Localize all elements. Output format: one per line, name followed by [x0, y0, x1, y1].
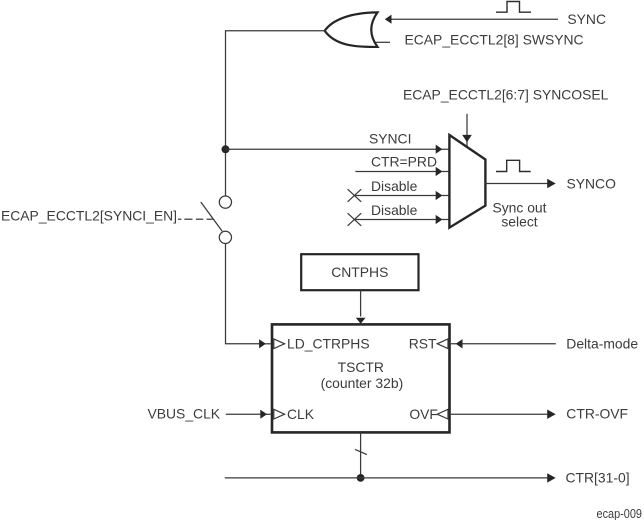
- wire rail from switch down to LD_CTRPHS: [226, 244, 266, 344]
- pin chevron RST: [437, 339, 448, 349]
- svg-text:ECAP_ECCTL2[8] SWSYNC: ECAP_ECCTL2[8] SWSYNC: [405, 31, 584, 47]
- svg-text:Disable: Disable: [371, 202, 418, 218]
- svg-text:ECAP_ECCTL2[SYNCI_EN]: ECAP_ECCTL2[SYNCI_EN]: [1, 208, 177, 224]
- junction dot on CTR bus: [357, 474, 365, 482]
- OR gate (sync combine, mirrored: inputs right, output left): [325, 12, 378, 47]
- svg-text:LD_CTRPHS: LD_CTRPHS: [287, 336, 370, 352]
- pin chevron CLK: [274, 409, 285, 419]
- wire VBUS_CLK to TSCTR: [226, 413, 271, 415]
- X mark on Disable input 1: [348, 189, 362, 202]
- wire Disable input 1 to mux: [354, 195, 448, 197]
- node junction dot on rail: [222, 145, 230, 153]
- arrowhead Disable 1 into mux: [436, 191, 443, 200]
- svg-text:RST: RST: [409, 335, 437, 351]
- X mark on Disable input 2: [348, 213, 362, 226]
- switch lower contact circle: [219, 231, 231, 243]
- wire TSCTR bottom to CTR bus: [360, 432, 362, 478]
- arrowhead Delta-mode into RST: [456, 339, 463, 348]
- mux Sync-out-select (trapezoid): [449, 135, 485, 228]
- svg-text:select: select: [501, 214, 537, 230]
- svg-text:SYNC: SYNC: [567, 11, 606, 27]
- svg-text:SYNCI: SYNCI: [369, 131, 411, 147]
- wire SWSYNC input stub: [375, 41, 391, 43]
- wire stub arrow to block edge: [265, 343, 271, 345]
- wire OVF to CTR-OVF: [451, 413, 548, 415]
- block CNTPHS: [301, 254, 418, 290]
- svg-text:CTR=PRD: CTR=PRD: [371, 153, 437, 169]
- svg-text:Delta-mode: Delta-mode: [566, 335, 638, 351]
- pulse symbol above SYNCO wire: [496, 160, 531, 171]
- pin chevron LD_CTRPHS: [274, 339, 285, 349]
- svg-text:CNTPHS: CNTPHS: [331, 264, 388, 280]
- svg-text:Disable: Disable: [371, 178, 418, 194]
- pin chevron OVF: [437, 409, 448, 419]
- switch arm: [201, 202, 222, 231]
- arrowhead SYNCI into mux: [436, 145, 443, 154]
- arrowhead VBUS_CLK into CLK: [260, 410, 267, 419]
- svg-text:CTR[31-0]: CTR[31-0]: [566, 470, 630, 486]
- svg-text:ecap-009: ecap-009: [597, 506, 643, 520]
- svg-text:SYNCO: SYNCO: [567, 176, 617, 192]
- block TSCTR (counter 32b): [272, 324, 450, 432]
- arrowhead CTR-OVF: [547, 410, 556, 419]
- svg-text:TSCTR: TSCTR: [338, 359, 384, 375]
- svg-text:OVF: OVF: [409, 406, 438, 422]
- wire SYNCI from node to mux: [226, 148, 449, 150]
- arrowhead Disable 2 into mux: [436, 215, 443, 224]
- arrowhead SYNC into OR gate: [385, 15, 392, 24]
- wire SYNCOSEL select into mux top: [466, 114, 468, 147]
- wire CTR[31-0] bus: [225, 477, 548, 479]
- svg-text:ECAP_ECCTL2[6:7] SYNCOSEL: ECAP_ECCTL2[6:7] SYNCOSEL: [403, 87, 609, 103]
- wire SYNC input: [391, 18, 558, 20]
- wire Delta-mode to RST: [451, 343, 556, 345]
- arrowhead CTR[31-0]: [547, 473, 556, 482]
- wire CNTPHS down to TSCTR: [360, 290, 362, 316]
- arrowhead into LD_CTRPHS: [259, 339, 266, 348]
- bus-width slash on CTR wire: [355, 449, 367, 454]
- wire OR gate output to left rail: [226, 31, 325, 196]
- dashed control line to switch: [178, 218, 181, 220]
- svg-text:CTR-OVF: CTR-OVF: [566, 405, 628, 421]
- arrowhead CTR=PRD into mux: [436, 167, 443, 176]
- svg-text:VBUS_CLK: VBUS_CLK: [148, 405, 221, 421]
- switch upper contact circle: [219, 196, 231, 208]
- wire SYNCO output: [485, 183, 548, 185]
- svg-text:CLK: CLK: [287, 406, 315, 422]
- arrowhead SYNCO: [547, 179, 556, 188]
- pulse symbol above SYNC wire: [496, 2, 531, 13]
- arrowhead CNTPHS into TSCTR: [356, 318, 366, 324]
- wire Disable input 2 to mux: [354, 219, 448, 221]
- arrowhead select into mux: [462, 135, 472, 142]
- wire CTR=PRD to mux: [355, 171, 448, 173]
- svg-text:(counter 32b): (counter 32b): [321, 375, 404, 391]
